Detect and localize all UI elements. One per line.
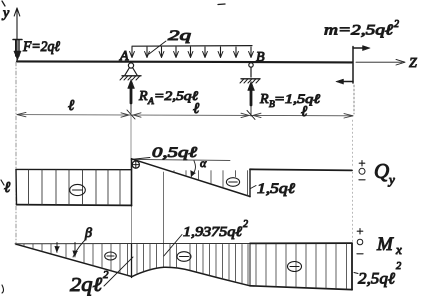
svg-text:0,5qℓ: 0,5qℓ xyxy=(152,145,197,161)
svg-text:ℓ: ℓ xyxy=(193,101,199,117)
svg-text:R: R xyxy=(259,92,269,107)
svg-text:1,5qℓ: 1,5qℓ xyxy=(257,181,295,197)
svg-text:=1,5qℓ: =1,5qℓ xyxy=(274,91,321,106)
svg-text:ℓ: ℓ xyxy=(4,180,10,196)
svg-text:2,5qℓ: 2,5qℓ xyxy=(358,271,395,288)
svg-text:2: 2 xyxy=(103,269,109,281)
svg-text:2q: 2q xyxy=(168,28,192,44)
svg-text:y: y xyxy=(387,172,395,187)
svg-text:M: M xyxy=(376,234,394,255)
svg-text:x: x xyxy=(395,242,402,257)
svg-text:y: y xyxy=(1,6,10,21)
svg-text:B: B xyxy=(256,50,265,65)
svg-text:α: α xyxy=(200,156,207,170)
svg-text:A: A xyxy=(119,49,129,64)
svg-text:Q: Q xyxy=(374,159,389,183)
svg-text:2: 2 xyxy=(243,219,248,230)
svg-text:β: β xyxy=(84,226,92,241)
svg-text:=2,5qℓ: =2,5qℓ xyxy=(154,88,199,103)
svg-text:2: 2 xyxy=(396,261,402,272)
svg-text:ℓ: ℓ xyxy=(68,98,74,114)
svg-text:2qℓ: 2qℓ xyxy=(70,274,103,296)
svg-text:2: 2 xyxy=(394,19,399,30)
svg-text:R: R xyxy=(138,89,148,104)
svg-text:m=2,5qℓ: m=2,5qℓ xyxy=(324,23,393,39)
svg-text:A: A xyxy=(147,97,154,107)
svg-text:F=2qℓ: F=2qℓ xyxy=(22,39,60,55)
svg-text:1,9375qℓ: 1,9375qℓ xyxy=(183,225,242,240)
svg-text:ℓ: ℓ xyxy=(301,104,307,120)
svg-text:Z: Z xyxy=(409,56,417,71)
